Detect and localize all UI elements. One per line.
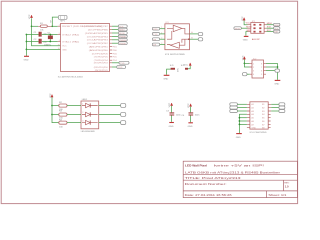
wire row6 u4 bbox=[239, 120, 247, 122]
wire sv2 row3 bbox=[271, 110, 279, 112]
node label MISO flag isp bbox=[274, 23, 280, 27]
wire XTAL1 to pin bbox=[42, 41, 58, 43]
node junction led2 bbox=[51, 114, 53, 116]
power flag VCC led bbox=[50, 93, 53, 98]
wire VCC rail to VCC pin bbox=[32, 26, 61, 46]
node junction R1/VCC bbox=[31, 25, 33, 27]
svg-text:LATB G6KB mit ATtiny2313 & RS4: LATB G6KB mit ATtiny2313 & RS485 Bustrei… bbox=[185, 171, 280, 175]
svg-text:VCC: VCC bbox=[188, 103, 190, 108]
svg-text:TXD: TXD bbox=[120, 63, 125, 65]
node junction u4 c bbox=[239, 124, 241, 126]
svg-text:100n: 100n bbox=[195, 114, 201, 116]
diode D red bbox=[82, 103, 98, 107]
capacitor C3 bbox=[166, 102, 181, 127]
IC U1 left pin labels bbox=[62, 25, 102, 51]
svg-text:(OC0A/PB2)PB2: (OC0A/PB2)PB2 bbox=[87, 42, 109, 45]
svg-text:VCC: VCC bbox=[50, 93, 52, 98]
svg-text:MISO: MISO bbox=[267, 23, 273, 25]
wire sck bbox=[266, 27, 273, 29]
svg-text:(DO/PB6)PB6: (DO/PB6)PB6 bbox=[88, 30, 109, 32]
node junction xtal1 cap bbox=[26, 41, 28, 43]
node label RXD flag bbox=[152, 27, 159, 31]
pin PD5 stub bbox=[110, 57, 118, 59]
pin5 stub bbox=[248, 31, 251, 33]
wire row7 u4 bbox=[239, 123, 247, 125]
pin PB1 stub bbox=[110, 47, 118, 49]
pin XTAL1 stub bbox=[58, 41, 61, 43]
power flag VCC bias bbox=[184, 63, 192, 67]
power flag VCC u2 bbox=[242, 55, 245, 60]
wire sv1 row3 bbox=[237, 110, 247, 112]
wire bias vcc bbox=[188, 66, 190, 69]
wire sv2 row2 bbox=[271, 107, 279, 109]
wire bias gnd bbox=[167, 69, 171, 75]
svg-text:GND: GND bbox=[274, 84, 279, 86]
svg-text:GND: GND bbox=[62, 49, 67, 51]
node label PWM-R bbox=[118, 42, 127, 46]
diode D blue bbox=[82, 120, 98, 124]
pin XTAL2 stub bbox=[58, 34, 61, 36]
pin PB3 stub bbox=[110, 39, 113, 41]
wire vcc rail u2 bbox=[244, 59, 249, 67]
wire GND pin row bbox=[26, 48, 60, 50]
pin PB4 stub bbox=[110, 35, 113, 37]
wire PB7 bbox=[112, 25, 118, 27]
svg-text:MOSI: MOSI bbox=[246, 27, 252, 29]
svg-text:GND: GND bbox=[236, 137, 241, 139]
node junction xtal2 cap bbox=[26, 34, 28, 36]
svg-text:VCC: VCC bbox=[62, 46, 67, 48]
pin pad 6 bbox=[259, 31, 261, 33]
ground GND isp bbox=[243, 36, 249, 41]
svg-text:VCC: VCC bbox=[29, 14, 31, 19]
wire XTAL1 row bbox=[26, 41, 38, 43]
svg-text:SCK: SCK bbox=[267, 27, 272, 29]
wire PB2 bbox=[112, 42, 118, 44]
wire pin1 u2 bbox=[244, 62, 249, 64]
svg-text:LED1: LED1 bbox=[82, 99, 88, 101]
svg-text:Document Number:: Document Number: bbox=[185, 182, 227, 186]
svg-text:TITLE: Pixel ATtiny2313: TITLE: Pixel ATtiny2313 bbox=[185, 176, 242, 180]
svg-text:IC1 ATTINY2313-20SU: IC1 ATTINY2313-20SU bbox=[58, 76, 83, 79]
wire TXD to D bbox=[160, 33, 165, 35]
pin pad 4 bbox=[259, 27, 261, 29]
node label MOSI flag isp bbox=[234, 27, 241, 31]
wire PB5 bbox=[112, 32, 118, 34]
svg-text:RXD: RXD bbox=[118, 67, 123, 69]
svg-text:10: 10 bbox=[58, 48, 60, 50]
pin3 stub bbox=[248, 27, 251, 29]
solder jumper SJ1 bbox=[170, 65, 175, 70]
svg-text:VCC: VCC bbox=[242, 16, 244, 21]
wire sv2 row1 bbox=[271, 103, 279, 105]
wire VCC stem bbox=[31, 18, 33, 26]
wire rst bbox=[266, 31, 273, 33]
svg-text:GND: GND bbox=[246, 30, 251, 32]
svg-text:LED Wall Pixel: LED Wall Pixel bbox=[185, 163, 207, 167]
IC U1 ATtiny2313 bbox=[58, 24, 110, 79]
node label RE flag bbox=[152, 38, 159, 42]
svg-text:GND: GND bbox=[243, 40, 248, 42]
node label PWM-B bbox=[118, 35, 127, 39]
svg-text:IC3 SN75176BD: IC3 SN75176BD bbox=[165, 54, 186, 56]
capacitor C4 bbox=[181, 103, 200, 128]
gnd rail left bbox=[25, 35, 27, 56]
svg-text:GND: GND bbox=[24, 60, 29, 62]
pad bus A bbox=[191, 31, 203, 35]
svg-text:20: 20 bbox=[58, 44, 60, 46]
pin stubs left u2 bbox=[250, 63, 253, 74]
node junction u4 b bbox=[239, 120, 241, 122]
internal wiring bbox=[167, 28, 190, 45]
wire pad right u2 bbox=[266, 70, 275, 72]
node junction u2 gnd bbox=[277, 66, 279, 68]
wire reset to pin bbox=[52, 25, 57, 27]
wire PB4 bbox=[112, 35, 118, 37]
svg-text:MP1: MP1 bbox=[60, 21, 65, 23]
power flag VCC (reset pullup) bbox=[29, 14, 32, 19]
wire row5 u4 bbox=[239, 117, 247, 119]
resistor R1 bbox=[38, 23, 52, 32]
svg-text:(AIN0/PB0)PB0: (AIN0/PB0)PB0 bbox=[89, 49, 109, 52]
resistor R2 bbox=[59, 102, 81, 111]
pin2 stub bbox=[264, 24, 266, 26]
svg-text:GND: GND bbox=[188, 126, 193, 128]
wire miso bbox=[266, 24, 273, 26]
pad out3 bbox=[121, 121, 126, 125]
wire XTAL2 to pin bbox=[42, 34, 58, 36]
wire right rail u2 bbox=[266, 63, 278, 80]
svg-text:keine +5V an ISP!: keine +5V an ISP! bbox=[214, 163, 264, 167]
wire XTAL2 row bbox=[26, 34, 38, 36]
node junction reset bbox=[51, 25, 53, 27]
svg-text:Sheet: 1/1: Sheet: 1/1 bbox=[268, 193, 287, 197]
svg-text:LED-RGB-SMD: LED-RGB-SMD bbox=[81, 131, 95, 133]
svg-text:MOSI: MOSI bbox=[235, 28, 241, 30]
wire gnd rail u4 bbox=[239, 114, 247, 133]
pin PD4 stub bbox=[110, 60, 118, 62]
node label RST flag isp bbox=[274, 30, 280, 34]
node label PWM-G bbox=[118, 38, 127, 42]
pin pad 3 bbox=[253, 27, 255, 29]
wire bus B bbox=[190, 38, 199, 40]
svg-text:GND: GND bbox=[251, 128, 256, 130]
pad left u2 bbox=[242, 73, 247, 76]
ground GND1 bbox=[24, 56, 29, 61]
pad out1 bbox=[121, 104, 126, 108]
pin numbers IC1 left bbox=[58, 25, 60, 50]
pin PB2 stub bbox=[110, 42, 113, 44]
capacitor C1 bbox=[34, 32, 48, 37]
svg-text:PWMR: PWMR bbox=[119, 43, 126, 45]
node label TXD flag bbox=[152, 33, 159, 37]
node label MOSI bbox=[118, 32, 127, 35]
wire PD1 TXD bbox=[112, 62, 119, 64]
pin1 stub bbox=[248, 24, 251, 26]
wire mosi bbox=[241, 27, 247, 29]
IC U2 opto body bbox=[252, 58, 264, 78]
svg-text:XTAL2 (PA1): XTAL2 (PA1) bbox=[62, 33, 79, 36]
node junction led1 bbox=[51, 105, 53, 107]
pin stubs left u4 bbox=[247, 104, 250, 127]
pin PD0 stub bbox=[110, 66, 113, 68]
node junction gnd pin bbox=[26, 49, 28, 51]
svg-text:IC4 74HC595D: IC4 74HC595D bbox=[250, 132, 267, 134]
connector SV2 right bbox=[279, 103, 285, 113]
pin PB0 stub bbox=[110, 50, 118, 52]
svg-text:16MHz: 16MHz bbox=[44, 45, 51, 47]
wire vcc to pin1 bbox=[244, 21, 247, 25]
wire led out3 bbox=[99, 122, 121, 124]
wire led out1 bbox=[99, 105, 121, 107]
wire pad u2 bbox=[247, 73, 250, 75]
IC U1 right pin labels bbox=[84, 26, 109, 72]
node junction int bbox=[188, 38, 190, 40]
svg-text:ALB ISP: ALB ISP bbox=[252, 38, 260, 41]
crystal Q1 bbox=[44, 32, 53, 46]
pin stubs right u4 bbox=[268, 104, 271, 127]
pin pad 2 bbox=[259, 24, 261, 26]
driver amp triangle bbox=[173, 25, 182, 32]
pin pad 1 bbox=[253, 24, 255, 26]
diode D green bbox=[82, 112, 98, 117]
pad out2 bbox=[121, 113, 126, 117]
connector MP reset pad bbox=[51, 16, 67, 23]
svg-text:(AIN1/PB1)PB1: (AIN1/PB1)PB1 bbox=[89, 46, 109, 49]
svg-text:GND: GND bbox=[169, 126, 174, 128]
pin RESET stub bbox=[58, 25, 61, 27]
pin6 stub bbox=[264, 31, 266, 33]
svg-text:VCC: VCC bbox=[169, 102, 171, 107]
node label TXD bbox=[119, 61, 129, 65]
pad right u2 bbox=[275, 69, 280, 72]
resistor R3 bbox=[59, 111, 81, 120]
wire PD0 RXD bbox=[112, 66, 117, 68]
svg-text:(INT0/PD2): (INT0/PD2) bbox=[95, 70, 108, 72]
svg-text:(UCSK/SCL/PB7)PB7: (UCSK/SCL/PB7)PB7 bbox=[84, 26, 109, 28]
node label DE flag bbox=[152, 43, 159, 47]
pin PD1 stub bbox=[110, 62, 113, 64]
node label SCK flag isp bbox=[274, 27, 280, 31]
title text bbox=[185, 163, 290, 197]
resistor R4 bbox=[59, 119, 81, 128]
pin pad 5 bbox=[253, 31, 255, 33]
pin stubs right u2 bbox=[264, 63, 267, 74]
svg-text:RXD: RXD bbox=[153, 29, 158, 31]
pin PB5 stub bbox=[110, 32, 113, 34]
svg-text:(OC1A/PB3)PB3: (OC1A/PB3)PB3 bbox=[87, 39, 109, 42]
wire bus A bbox=[190, 33, 199, 35]
wire led vcc rail bbox=[52, 97, 59, 122]
pin PB7 stub bbox=[110, 25, 113, 27]
node junction u4 a bbox=[239, 117, 241, 119]
node label MISO bbox=[118, 28, 127, 32]
connector SV1 left bbox=[230, 103, 238, 113]
node junction u2 vcc bbox=[244, 63, 246, 65]
pin PB6 stub bbox=[110, 29, 113, 31]
svg-text:TXD: TXD bbox=[153, 34, 158, 36]
svg-text:(RXD/PD0)PD0: (RXD/PD0)PD0 bbox=[94, 67, 109, 69]
wire RXD to R bbox=[160, 28, 165, 30]
svg-text:REV:: REV: bbox=[284, 182, 289, 184]
IC U4 driver body bbox=[250, 102, 269, 134]
svg-text:VCC: VCC bbox=[246, 22, 251, 24]
node label SCK bbox=[118, 25, 127, 29]
svg-text:(DI/SDA/PB5)PB5: (DI/SDA/PB5)PB5 bbox=[85, 32, 109, 35]
IC U2 pin numbers bbox=[253, 63, 263, 76]
wire PB6 bbox=[112, 29, 118, 31]
svg-text:(ICP/PD6)PD6: (ICP/PD6)PD6 bbox=[92, 53, 109, 55]
ground GND u4 bbox=[236, 134, 242, 139]
svg-text:RST: RST bbox=[267, 30, 272, 32]
svg-text:Date: 27.04.2011 16:56:26: Date: 27.04.2011 16:56:26 bbox=[185, 193, 233, 197]
wire sv1 row2 bbox=[237, 107, 247, 109]
capacitor C2 bbox=[34, 39, 48, 44]
title block bbox=[183, 161, 297, 197]
frame border bbox=[1, 1, 297, 203]
pin4 stub bbox=[264, 27, 266, 29]
svg-text:(INT1/PD3)PD3: (INT1/PD3)PD3 bbox=[94, 63, 109, 65]
pin PD6 stub bbox=[110, 53, 118, 55]
svg-text:GND: GND bbox=[163, 79, 168, 81]
wire reset up to pad bbox=[52, 17, 58, 26]
wire RE bbox=[160, 38, 165, 40]
wire DE bbox=[160, 44, 165, 46]
svg-text:VCC: VCC bbox=[184, 64, 189, 66]
wire row led2 bbox=[52, 114, 59, 116]
svg-text:(T1/PD5)PD5: (T1/PD5)PD5 bbox=[94, 57, 109, 59]
IC U4 pin labels bbox=[251, 103, 265, 129]
power flag VCC isp bbox=[242, 16, 245, 21]
node label RXD bbox=[117, 66, 126, 70]
wire led out2 bbox=[99, 114, 121, 116]
solder jumper SJ2 bbox=[181, 65, 188, 70]
wire gnd isp bbox=[246, 32, 248, 36]
wire sv1 row1 bbox=[237, 103, 247, 105]
LED array body bbox=[81, 99, 99, 133]
ground GND bias bbox=[163, 75, 169, 80]
wire PB3 bbox=[112, 39, 118, 41]
receiver amp triangle bbox=[171, 42, 180, 48]
wire to R1 bbox=[32, 25, 39, 27]
svg-text:1.0: 1.0 bbox=[285, 185, 289, 189]
svg-text:XTAL1 (PA0): XTAL1 (PA0) bbox=[62, 40, 79, 43]
pad bus B bbox=[191, 38, 203, 41]
pin numbers IC3 left bbox=[161, 27, 162, 45]
connector JP1 ISP header bbox=[251, 21, 264, 41]
IC U3 RS485 transceiver body bbox=[165, 22, 190, 56]
wire row led1 bbox=[52, 105, 59, 107]
ground GND u2 bbox=[274, 80, 280, 85]
svg-text:RST: RST bbox=[274, 32, 279, 34]
svg-text:(OC1B/PB4)PB4: (OC1B/PB4)PB4 bbox=[87, 36, 109, 38]
